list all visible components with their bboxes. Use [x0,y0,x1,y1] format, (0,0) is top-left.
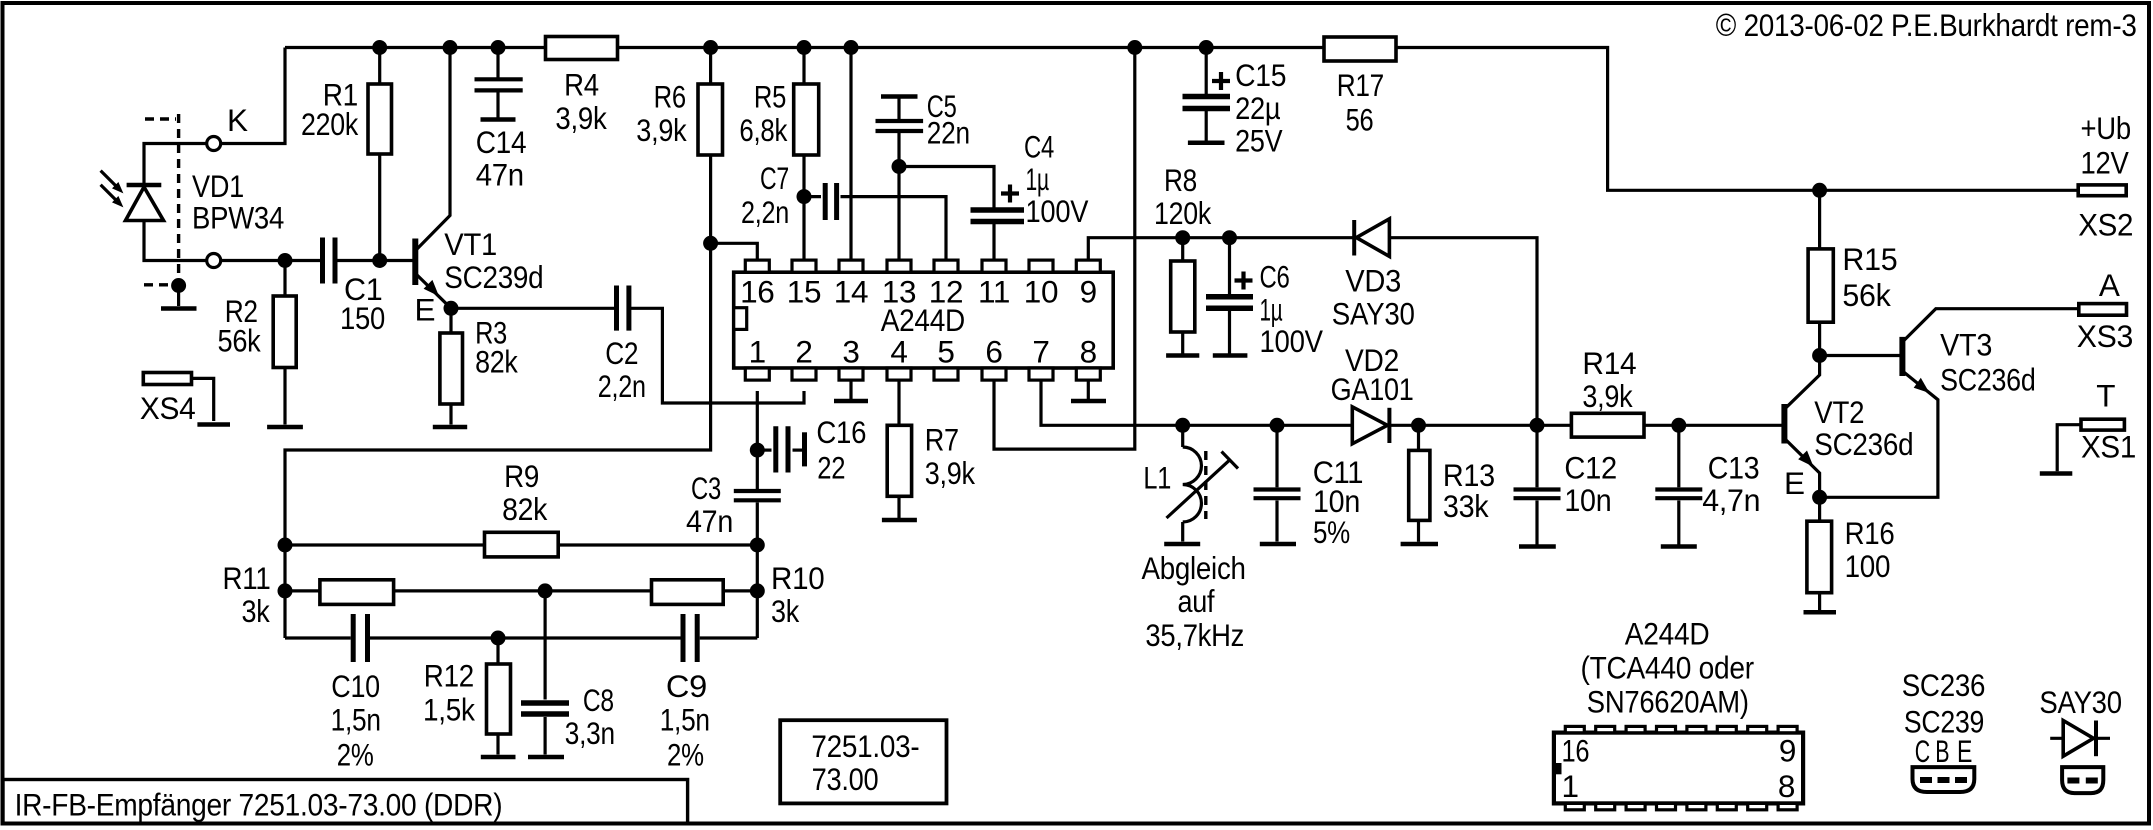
capacitor C10 1,5n 2% [331,614,381,773]
svg-text:5%: 5% [1313,514,1350,550]
wire: L1 bottom lead [1181,522,1184,542]
svg-text:L1: L1 [1143,460,1171,496]
ground bar under R12 [481,755,516,760]
wire: C11 top [1275,425,1278,487]
node: R9 left [278,538,293,553]
svg-text:3k: 3k [771,593,799,629]
package pin stubs bottom row [1565,803,1797,809]
svg-text:C4: C4 [1024,129,1054,165]
terminal K [207,137,221,151]
wire: IC pin 9 to VD3 rail [1088,238,1354,261]
node: R13 tap [1411,418,1426,433]
capacitor C15 22u 25V polarized [1183,57,1287,159]
ground bar under C12 [1519,544,1556,549]
IC pin 7 stub [1029,334,1053,381]
ground bar under R8 [1166,353,1199,358]
ground bar under R13 [1401,542,1438,547]
wire: R12 bottom to ground [496,734,499,755]
capacitor C3 47n [686,470,781,539]
resistor R16 100 [1807,515,1895,593]
svg-text:33k: 33k [1443,488,1489,524]
note: Abgleich auf 35,7kHz [1142,550,1246,653]
svg-text:7: 7 [1032,334,1049,370]
svg-text:E: E [1957,733,1972,769]
wire: R2 top [283,261,286,297]
svg-text:C13: C13 [1708,450,1760,486]
svg-text:8: 8 [1778,768,1795,804]
node: bus VT1 collector [443,40,458,55]
package pin stubs top row [1565,726,1797,732]
node: bus R6 [703,40,718,55]
svg-text:SAY30: SAY30 [2039,684,2121,720]
svg-text:E: E [415,291,436,327]
svg-text:100V: 100V [1026,193,1089,229]
capacitor C16 22 with open end bar [776,414,866,486]
svg-text:R10: R10 [771,560,824,596]
node: bus R1 [372,40,387,55]
resistor R12 1,5k [423,658,511,735]
ground bar under C15 [1188,141,1225,146]
ground symbol at VD1 case [161,306,197,311]
diode VD2 GA101 [1331,342,1414,444]
wire: R1 top [378,48,381,85]
svg-text:R12: R12 [424,658,474,694]
svg-text:R11: R11 [223,560,271,596]
svg-text:9: 9 [1779,733,1796,769]
svg-text:K: K [227,102,248,138]
IC pin 14 stub [834,260,868,310]
svg-text:Abgleich: Abgleich [1142,550,1246,586]
wire: C16 left lead [757,449,771,452]
node: C4 at pin13 [892,159,907,174]
svg-text:120k: 120k [1154,195,1211,231]
svg-text:VD3: VD3 [1345,262,1401,298]
svg-text:1,5n: 1,5n [331,702,381,738]
svg-text:C16: C16 [816,414,866,450]
IC pin 11 stub [978,260,1010,310]
wire: R13 top [1417,425,1420,450]
svg-text:(TCA440 oder: (TCA440 oder [1581,649,1754,685]
wire: node to VT3 base [1820,354,1903,357]
ground bar under C11 [1260,542,1296,547]
svg-text:22µ: 22µ [1235,90,1280,126]
wire: C6 top [1228,238,1231,294]
capacitor C4 1u 100V polarized [971,129,1089,229]
wire: R2 bottom to ground [283,368,286,425]
svg-text:C3: C3 [691,470,721,506]
VD1 case dashed outline [144,114,179,285]
IC pin 12 stub [929,260,963,310]
node: bus C14 [491,40,506,55]
svg-text:4: 4 [890,334,907,370]
node: bus R5 [797,40,812,55]
IC pin 3 stub [839,334,863,381]
transistor VT1 SC239d [415,226,544,327]
node: L1 tap [1175,418,1190,433]
svg-text:16: 16 [1562,733,1590,769]
wire: C13 top [1677,425,1680,487]
wire: C8 bottom to ground [543,717,546,755]
svg-text:2,2n: 2,2n [741,194,789,230]
node: VD1 case to ground junction [171,278,186,293]
svg-text:3,9k: 3,9k [925,455,975,491]
connector XS2 +Ub 12V [2078,110,2133,242]
svg-text:3,9k: 3,9k [1582,378,1632,414]
wire: C11 bottom to ground [1275,501,1278,542]
connector XS3 A [2077,267,2133,354]
svg-text:1µ: 1µ [1026,161,1050,197]
wire: R1 bottom to base node [378,154,381,261]
wire: R12 top [496,638,499,664]
svg-text:R6: R6 [654,79,686,115]
wire: L1 top lead [1181,425,1184,447]
wire: bottom rail left to C10 [285,636,351,639]
svg-text:C8: C8 [583,682,614,718]
wire: +Ub top bus [285,48,2078,191]
node: R2 input junction [278,253,293,268]
svg-text:B: B [1935,733,1949,769]
svg-text:VT2: VT2 [1814,394,1864,430]
svg-text:SN76620AM): SN76620AM) [1587,684,1749,720]
svg-text:R5: R5 [754,79,786,115]
ground bar at XS1 [2040,471,2073,476]
capacitor C13 4,7n [1655,450,1760,518]
wire: lower terminal to C1 left plate [221,259,320,262]
ground bar under C6 [1213,353,1248,358]
resistor R8 120k [1154,162,1211,332]
connector XS4 [140,373,196,427]
resistor R4 3,9k [546,37,618,137]
inductor L1 labels and trimmer arrow [1143,451,1238,519]
svg-text:A244D: A244D [1625,615,1710,651]
part number box 7251.03-73.00 [780,720,946,803]
svg-text:6: 6 [985,334,1002,370]
svg-text:4,7n: 4,7n [1702,482,1760,518]
wire: R3 top to node E of VT1 [449,308,452,333]
node: bus C15 [1199,40,1214,55]
svg-text:R17: R17 [1337,67,1384,103]
svg-text:100: 100 [1845,548,1891,584]
svg-text:C7: C7 [760,160,789,196]
package drawing A244D DIP16 [1554,615,1803,804]
wire: bottom rail C10 to C9 [370,636,681,639]
svg-text:SC239d: SC239d [444,259,543,295]
capacitor C8 3,3n [521,682,615,751]
svg-text:100V: 100V [1260,323,1324,359]
wire: C14 top stub [496,48,499,80]
resistor R11 3k [223,560,394,629]
wire: XS4 lead [192,378,214,421]
package drawing SAY30 diode [2039,684,2121,793]
svg-text:73.00: 73.00 [812,761,879,797]
wire: C3 bottom through R9/R10 nodes to bottom rail [756,503,759,639]
wire: C4 top lead to pin13 node [899,167,994,209]
resistor R7 3,9k [887,422,975,497]
svg-text:1: 1 [749,334,766,370]
wire: R15 top to +Ub rail [1818,190,1821,249]
svg-text:VT3: VT3 [1940,327,1992,363]
wire: R9 feedback line [285,543,757,546]
wire: bottom rail C9 to pin1 branch [700,636,758,639]
wire: IC pin 8 to ground [1087,379,1090,399]
wire: R5 to IC pin 15 [802,48,805,262]
ground bar at IC pin 8 [1071,399,1106,404]
node: R1 base junction [372,253,387,268]
svg-text:2,2n: 2,2n [598,368,646,404]
svg-text:XS1: XS1 [2081,429,2136,465]
op IC U1 A244D body [734,272,1113,368]
wire: C5 bottom to IC pin 13 [897,133,900,261]
svg-text:C: C [1915,733,1930,769]
svg-text:GA101: GA101 [1331,371,1414,407]
ground bar under R7 [882,518,917,523]
IC pin 6 stub [982,334,1006,381]
node: VT2 collector VT3 base [1812,348,1827,363]
ground bar under C14 [481,117,516,122]
resistor R9 82k [485,458,559,557]
wire: VT3 collector to XS3 [1902,309,2078,342]
IC pin 1 stub [745,334,769,381]
svg-text:3,9k: 3,9k [636,112,687,148]
wire: C13 bottom to ground [1677,501,1680,545]
wire: C1 right plate to VT1 base [338,259,414,262]
wire: bus to IC pin 14 [849,48,852,262]
node: bus pin14 [844,40,859,55]
resistor R5 6,8k [739,79,818,155]
svg-text:C2: C2 [605,335,638,371]
wire: C6 bottom to ground [1228,311,1231,354]
package drawing TO-92 SC236 SC239 pinout [1902,667,1986,792]
wire: VD2 cathode line to VT2 base [1390,424,1785,427]
svg-text:10: 10 [1024,274,1058,310]
svg-text:1,5n: 1,5n [660,702,710,738]
svg-text:16: 16 [740,274,774,310]
svg-text:R15: R15 [1842,241,1897,277]
wire: C16 right lead to open bar [793,449,805,452]
wire: K terminal to photodiode cathode [144,144,207,186]
terminal anode [207,254,221,268]
svg-text:82k: 82k [475,344,518,380]
resistor R1 220k [301,77,392,155]
wire: C15 top [1205,48,1208,95]
svg-text:14: 14 [834,274,868,310]
svg-text:8: 8 [1080,334,1097,370]
svg-text:C14: C14 [476,124,527,160]
wire: IC pin 7 detector line to VD2 anode [1041,379,1352,425]
svg-text:12V: 12V [2081,145,2129,181]
photodiode VD1 BPW34 [101,168,284,236]
svg-text:3k: 3k [242,593,270,629]
wire: R3 bottom to ground [449,404,452,425]
IC pin 10 stub [1024,260,1058,310]
node: C8 tap [538,583,553,598]
svg-text:R9: R9 [504,458,539,494]
svg-text:56: 56 [1346,101,1374,137]
svg-text:3,9k: 3,9k [555,100,607,136]
svg-text:1µ: 1µ [1260,292,1283,328]
wire: R8 top [1181,238,1184,261]
node: E emitter VT2 [1812,490,1827,505]
transistor VT3 SC236d [1902,327,2035,398]
resistor R15 56k [1808,241,1897,322]
svg-text:150: 150 [340,300,385,336]
wire: R6 node to IC pin 16 [711,243,758,261]
ground bar under L1 [1164,542,1200,547]
svg-text:22: 22 [817,450,845,486]
IC pin 15 stub [787,260,821,310]
svg-text:auf: auf [1178,583,1215,619]
wire: C7 left lead [804,195,821,198]
svg-text:1: 1 [1562,768,1579,804]
svg-text:SC236: SC236 [1902,667,1986,703]
wire: R7 bottom to ground [897,496,900,518]
wire: C12 top [1535,425,1538,487]
IC pin 4 stub [887,334,911,381]
wire: C12 bottom to ground [1535,501,1538,545]
ground bar under C8 [528,755,564,760]
wire: photodiode anode to lower terminal [144,221,207,261]
IC pin 2 stub [792,334,816,381]
svg-text:VT1: VT1 [444,226,497,262]
svg-text:R7: R7 [925,422,959,458]
node: C7 at pin15 [797,189,812,204]
capacitor C11 10n 5% [1254,454,1364,550]
svg-text:7251.03-: 7251.03- [811,728,919,764]
wire: IC pin 6 loop to bus vertical [994,48,1135,450]
ground symbol under R2 [267,425,303,430]
ground bar under C13 [1661,544,1697,549]
wire: VT1 emitter node to C2 left plate [451,307,614,310]
resistor R14 3,9k [1571,345,1644,437]
svg-text:10n: 10n [1564,482,1611,518]
capacitor C12 10n [1514,450,1617,518]
wire: VT3 emitter to node E [1820,371,1938,497]
svg-text:+Ub: +Ub [2081,110,2131,146]
wire: C15 bottom stub [1205,111,1208,141]
capacitor C1 150 [323,238,386,337]
svg-text:15: 15 [787,274,821,310]
wire: VT2 emitter to node E [1785,439,1820,498]
svg-text:2%: 2% [337,737,374,773]
node: R9 right [750,538,765,553]
ground bar at IC pin 3 [834,399,868,404]
IC pin 16 stub [740,260,774,310]
wire: IC pin 4 to R7 [897,379,900,425]
svg-text:E: E [1784,465,1805,501]
svg-text:T: T [2096,378,2115,414]
wire: R11 R10 line [285,589,757,592]
svg-text:XS2: XS2 [2078,207,2133,243]
resistor R3 82k [440,314,518,404]
IC pin 9 stub [1076,260,1100,310]
diode VD3 SAY30 [1332,219,1415,332]
wire: IC pin 1 to C3 top [756,391,759,489]
connector XS1 T [2081,378,2136,465]
wire: K terminal to +Ub bus riser [221,48,285,144]
node: bus pin6 riser [1127,40,1142,55]
capacitor C5 22n with open top bar [876,88,970,151]
svg-text:XS3: XS3 [2077,318,2133,354]
svg-text:SC236d: SC236d [1940,362,2035,398]
svg-text:2%: 2% [667,737,704,773]
wire: node E to R16 [1818,497,1821,521]
node: R6 to pin16 branch [703,236,718,251]
svg-text:11: 11 [978,274,1010,310]
resistor R2 56k [218,293,297,367]
svg-text:13: 13 [882,274,916,310]
wire: VD3 cathode rail to demod node [1390,238,1538,426]
svg-text:35,7kHz: 35,7kHz [1145,617,1244,653]
svg-text:22n: 22n [927,114,970,150]
wire: C14 bottom stub [496,93,499,118]
svg-text:6,8k: 6,8k [739,112,787,148]
svg-text:56k: 56k [1842,277,1891,313]
svg-text:47n: 47n [686,503,733,539]
IC pin 13 stub [882,260,916,310]
node: C11 tap [1270,418,1285,433]
wire: C8 top to R10/R11 node [543,591,546,700]
svg-text:C12: C12 [1564,450,1617,486]
node: C12 demod junction [1530,418,1545,433]
wire: XS1 lead [2057,425,2081,472]
wire: R6 branch vertical and y450 feedback rail to R11 network [285,48,711,639]
svg-text:9: 9 [1080,274,1097,310]
capacitor C9 1,5n 2% [660,614,710,773]
capacitor C7 2,2n [741,160,837,230]
svg-text:56k: 56k [218,322,261,358]
svg-text:A: A [2099,267,2120,303]
svg-text:R8: R8 [1164,162,1197,198]
ground bar at XS4 [197,422,230,427]
node: R8 at VD3 rail [1175,230,1190,245]
svg-text:C6: C6 [1260,258,1290,294]
wire: C2 right plate to IC pin 2 [631,308,805,403]
wire: C5 top stub [897,97,900,120]
svg-text:C15: C15 [1235,57,1286,93]
node: R12 tap [491,631,506,646]
svg-text:25V: 25V [1235,123,1282,159]
node: R11 left [278,583,293,598]
svg-text:BPW34: BPW34 [192,200,284,236]
node: C16 at pin1 [750,443,765,458]
svg-text:220k: 220k [301,106,358,142]
svg-text:5: 5 [937,334,954,370]
ground symbol under R3 [433,425,467,430]
wire: VD1 shield to ground [177,286,180,307]
resistor R13 33k [1409,450,1495,524]
transistor VT2 SC236d [1784,394,1913,501]
svg-text:© 2013-06-02 P.E.Burkhardt rem: © 2013-06-02 P.E.Burkhardt rem-3 [1716,7,2137,43]
node: +Ub at R15 [1812,183,1827,198]
wire: C4 bottom to IC pin 11 [992,224,995,262]
IC pin 8 stub [1076,334,1100,381]
IC pin 5 stub [934,334,958,381]
wire: C7 right lead to IC pin 12 [841,197,947,261]
node: VT1 emitter E [444,301,459,316]
capacitor C14 47n [475,79,527,192]
wire: IC pin 3 to ground [849,379,852,399]
node: R10 right [750,583,765,598]
wire: R15 bottom to VT2 collector node [1818,322,1821,355]
resistor R10 3k [652,560,825,629]
svg-text:2: 2 [795,334,812,370]
node: C13 tap [1671,418,1686,433]
svg-text:XS4: XS4 [140,390,196,426]
svg-text:12: 12 [929,274,963,310]
wire: R13 bottom to ground [1417,520,1420,541]
title block box [3,780,688,824]
wire: R16 bottom to ground [1818,593,1821,610]
